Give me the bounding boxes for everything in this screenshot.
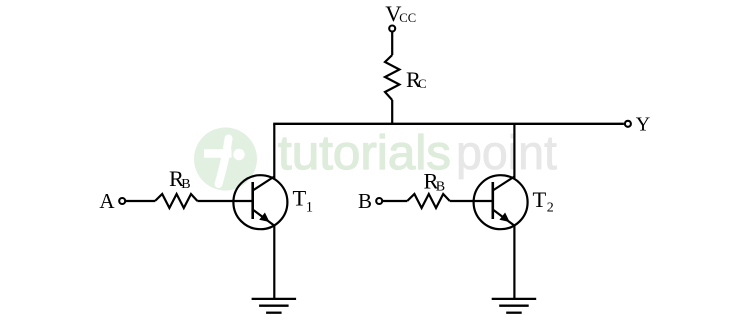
wire T2 collector to bus — [513, 124, 515, 180]
wire RC to bus — [391, 100, 393, 124]
svg-text:C: C — [418, 77, 427, 91]
svg-text:B: B — [358, 189, 372, 213]
tutorialspoint watermark logo — [194, 127, 557, 191]
transistor T1 — [233, 175, 287, 229]
svg-text:point: point — [456, 127, 557, 180]
wire collector bus — [273, 123, 624, 125]
resistor RB2 — [407, 194, 450, 208]
ground T2 — [492, 299, 537, 313]
wire T1 emitter to ground — [273, 225, 275, 300]
svg-text:A: A — [99, 189, 115, 213]
wire B to RB2 — [383, 200, 408, 202]
svg-text:CC: CC — [399, 11, 416, 25]
transistor T2 — [474, 175, 528, 229]
wire RB2 to T2 base — [450, 200, 493, 202]
svg-text:Y: Y — [636, 114, 650, 136]
input terminal A — [119, 198, 125, 204]
VCC terminal — [389, 26, 395, 32]
output terminal Y — [625, 121, 631, 127]
svg-text:1: 1 — [306, 199, 313, 215]
svg-text:B: B — [181, 177, 190, 192]
wire A to RB1 — [126, 200, 156, 202]
svg-text:2: 2 — [547, 201, 554, 216]
ground T1 — [252, 299, 297, 313]
svg-text:B: B — [436, 179, 445, 194]
resistor RC — [385, 55, 399, 100]
svg-text:T: T — [293, 186, 307, 211]
input terminal B — [376, 198, 382, 204]
wire RB1 to T1 base — [197, 200, 252, 202]
wire T1 collector to bus — [273, 124, 275, 180]
wire VCC to RC — [391, 32, 393, 55]
resistor RB1 — [155, 194, 197, 208]
svg-text:T: T — [533, 187, 547, 212]
wire T2 emitter to ground — [513, 225, 515, 300]
